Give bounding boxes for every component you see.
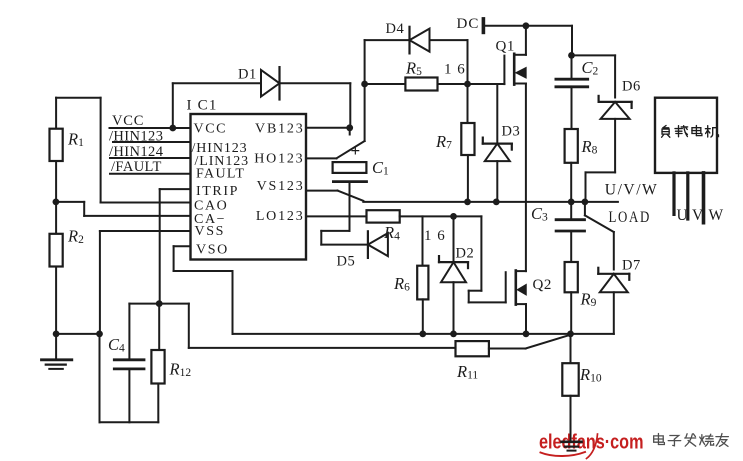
wire ground to C4/R12 bottom rail	[100, 334, 159, 422]
node R7 bottom	[464, 199, 471, 206]
pin FAULT label	[196, 167, 245, 182]
node VB123 junction	[346, 124, 353, 134]
ground symbol left	[42, 334, 72, 369]
diode D5	[321, 231, 388, 270]
pin VSS label	[195, 224, 225, 239]
wire gate bus Q1 with R5	[365, 78, 505, 91]
node C3 top junction	[568, 199, 575, 206]
wire D4 top right	[430, 40, 468, 84]
node ITRIP-R12 junction	[156, 300, 163, 307]
label /HIN123 input	[109, 128, 163, 144]
diode D2 zener	[439, 216, 468, 282]
wire R2 to ground	[56, 267, 99, 334]
node C2 top junction	[568, 52, 575, 59]
pin /HIN123 label	[192, 141, 248, 156]
wire D7 anode to bottom bus	[613, 292, 615, 334]
svg-text:VCC: VCC	[112, 113, 144, 129]
diode D3 zener	[483, 124, 520, 162]
wire D1 anode	[173, 82, 261, 84]
label IC1	[187, 98, 218, 114]
label D2	[456, 246, 475, 262]
label R4	[383, 223, 400, 243]
label LOAD	[609, 209, 652, 226]
capacitor C4	[108, 304, 144, 423]
node R6 bottom bus	[419, 331, 426, 338]
pin VCC label	[194, 122, 228, 137]
pin CAO label	[194, 199, 228, 214]
svg-text:D6: D6	[622, 79, 641, 95]
svg-text:W: W	[709, 207, 724, 224]
wire D6 anode to phase node	[586, 119, 616, 202]
svg-text:U: U	[677, 207, 688, 224]
wire VCC input	[110, 127, 191, 129]
pin VSO label	[196, 243, 229, 258]
node R1-R2 junction	[53, 199, 60, 206]
resistor R10	[562, 334, 602, 396]
wire /HIN124 input	[110, 157, 191, 159]
pin LO123 label	[256, 209, 305, 224]
wire DC corner to C2	[571, 26, 573, 56]
label C1 plus	[351, 141, 361, 160]
svg-text:LO123: LO123	[256, 209, 305, 224]
capacitor C1 plus lead	[337, 84, 365, 158]
wire D1 cathode to VB123	[280, 83, 351, 128]
svg-text:D7: D7	[622, 258, 641, 274]
wire ITRIP staircase	[160, 189, 191, 304]
svg-text:VSS: VSS	[195, 224, 225, 239]
svg-text:Q1: Q1	[496, 39, 515, 55]
diode D4	[386, 21, 430, 53]
svg-text:1 6: 1 6	[424, 228, 446, 244]
wire R9 to bottom bus	[570, 292, 572, 334]
diode D7 zener	[598, 258, 640, 293]
wire DC rail	[485, 25, 572, 27]
wire /HIN123 input	[113, 141, 191, 143]
resistor R1	[50, 129, 85, 161]
wire D4 top left	[365, 39, 410, 41]
label motor text	[662, 126, 670, 138]
svg-text:D1: D1	[238, 67, 257, 83]
wire R5 D4 left riser	[364, 40, 366, 84]
svg-text:+: +	[351, 141, 361, 160]
diode D6 zener	[599, 79, 641, 119]
node Q1 drain tap	[523, 22, 530, 29]
wire R6 to bottom bus	[422, 299, 424, 334]
wire R1 top net	[56, 98, 101, 129]
svg-text:VCC: VCC	[194, 122, 228, 137]
svg-text:D3: D3	[502, 124, 521, 140]
wire CA- staircase from R1-R2 node	[56, 202, 191, 216]
diode D1	[238, 67, 280, 100]
wire motor lead U	[672, 173, 675, 215]
resistor R6	[393, 216, 428, 299]
pin VB123 label	[255, 122, 304, 137]
resistor R12	[151, 304, 191, 423]
svg-text:Q2: Q2	[533, 277, 552, 293]
label /FAULT input	[111, 159, 162, 175]
resistor R11	[456, 341, 489, 381]
wire ITRIP node horizontal	[129, 303, 188, 305]
svg-text:D4: D4	[386, 21, 405, 37]
wire CAO staircase from R1 top	[101, 98, 191, 203]
wire motor lead W	[702, 173, 706, 223]
pin HO123 label	[254, 152, 304, 167]
label /HIN124 input	[109, 144, 164, 160]
node R5 left junction	[361, 81, 368, 88]
label Q2	[533, 277, 552, 293]
capacitor C3	[531, 202, 585, 231]
wire R11 right diagonal to shunt node	[489, 335, 571, 349]
svg-text:eledfans·com: eledfans·com	[539, 431, 644, 454]
transistor Q2 mosfet	[506, 271, 526, 334]
wire VS123 pin	[306, 191, 363, 201]
label pin number 16 bottom	[424, 228, 446, 244]
wire R7 to VS bus	[467, 155, 469, 202]
label U/V/W	[605, 182, 659, 199]
label VCC input	[112, 113, 144, 129]
svg-text:/FAULT: /FAULT	[111, 159, 162, 175]
watermark chinese text	[654, 434, 665, 445]
node Q2 source junction	[523, 331, 530, 338]
load motor box	[655, 98, 717, 173]
wire VCC node up to D1	[172, 83, 174, 128]
svg-text:HO123: HO123	[254, 152, 304, 167]
pin ITRIP label	[196, 184, 239, 199]
node R5 right junction	[464, 81, 471, 88]
pin VS123 label	[257, 179, 305, 194]
capacitor C1	[333, 158, 389, 182]
node LOAD tap junction	[582, 199, 589, 206]
svg-text:ITRIP: ITRIP	[196, 184, 239, 199]
svg-text:LOAD: LOAD	[609, 209, 652, 226]
node D2 bottom bus	[450, 331, 457, 338]
wire D2 anode to bottom bus	[453, 282, 455, 334]
label pin number 16 top	[444, 62, 466, 78]
wire LOAD diagonal to D7	[585, 202, 614, 270]
wire R1 bottom to node	[55, 161, 57, 202]
wire R8 to VS bus	[570, 163, 572, 202]
resistor R9	[565, 262, 597, 309]
label W terminal	[709, 207, 724, 224]
wire VSO staircase	[174, 246, 233, 334]
label R5	[405, 59, 422, 79]
transistor Q1 mosfet	[504, 26, 526, 85]
node D2 cathode junction	[450, 213, 457, 220]
svg-text:U/V/W: U/V/W	[605, 182, 659, 199]
wire R10 to ground	[570, 396, 572, 442]
wire LO123 pin with R4	[306, 210, 481, 222]
wire VS bus	[363, 201, 618, 203]
wire bottom bus VSO	[233, 333, 614, 335]
wire /FAULT input	[110, 173, 191, 175]
resistor R7	[435, 84, 475, 155]
node D3 bottom	[493, 199, 500, 206]
svg-text:D2: D2	[456, 246, 475, 262]
svg-text:FAULT: FAULT	[196, 167, 245, 182]
label U terminal	[677, 207, 688, 224]
wire ITRIP to R11	[189, 304, 456, 348]
wire C1 bottom to D5 link	[349, 182, 351, 231]
svg-text:VB123: VB123	[255, 122, 304, 137]
wire C3 to R9	[570, 231, 572, 262]
wire VB123 pin	[306, 127, 350, 129]
wire D3 cathode riser	[496, 85, 498, 144]
resistor R8	[565, 129, 598, 163]
label V terminal	[692, 207, 704, 224]
op-amp U1 IC1 box	[191, 114, 307, 260]
wire D3 anode to VS bus	[496, 161, 498, 202]
node R10 top junction	[567, 331, 574, 338]
wire HO123 pin	[306, 157, 337, 159]
pin /LIN123 label	[195, 154, 250, 169]
watermark eledfans logo	[539, 431, 644, 459]
node ground junction left	[53, 331, 103, 338]
node VCC-D1 junction	[169, 125, 176, 132]
capacitor C2	[556, 55, 599, 129]
terminal DC bar	[482, 19, 486, 33]
label Q1	[496, 39, 515, 55]
wire Q1 source down to Q2 drain	[525, 84, 527, 272]
wire C2 node to D6	[572, 55, 616, 97]
wire VSS to ground	[100, 231, 191, 334]
svg-text:D5: D5	[337, 254, 356, 270]
pin CA- label	[194, 212, 226, 227]
label DC	[457, 16, 480, 32]
wire Q2 gate jog	[469, 216, 506, 302]
svg-text:VSO: VSO	[196, 243, 229, 258]
resistor R2	[50, 202, 85, 267]
svg-text:V: V	[692, 207, 704, 224]
svg-text:I C1: I C1	[187, 98, 218, 114]
svg-text:1 6: 1 6	[444, 62, 466, 78]
svg-text:VS123: VS123	[257, 179, 305, 194]
svg-text:DC: DC	[457, 16, 480, 32]
wire motor lead V	[686, 173, 689, 219]
ground symbol bottom right	[562, 420, 582, 451]
